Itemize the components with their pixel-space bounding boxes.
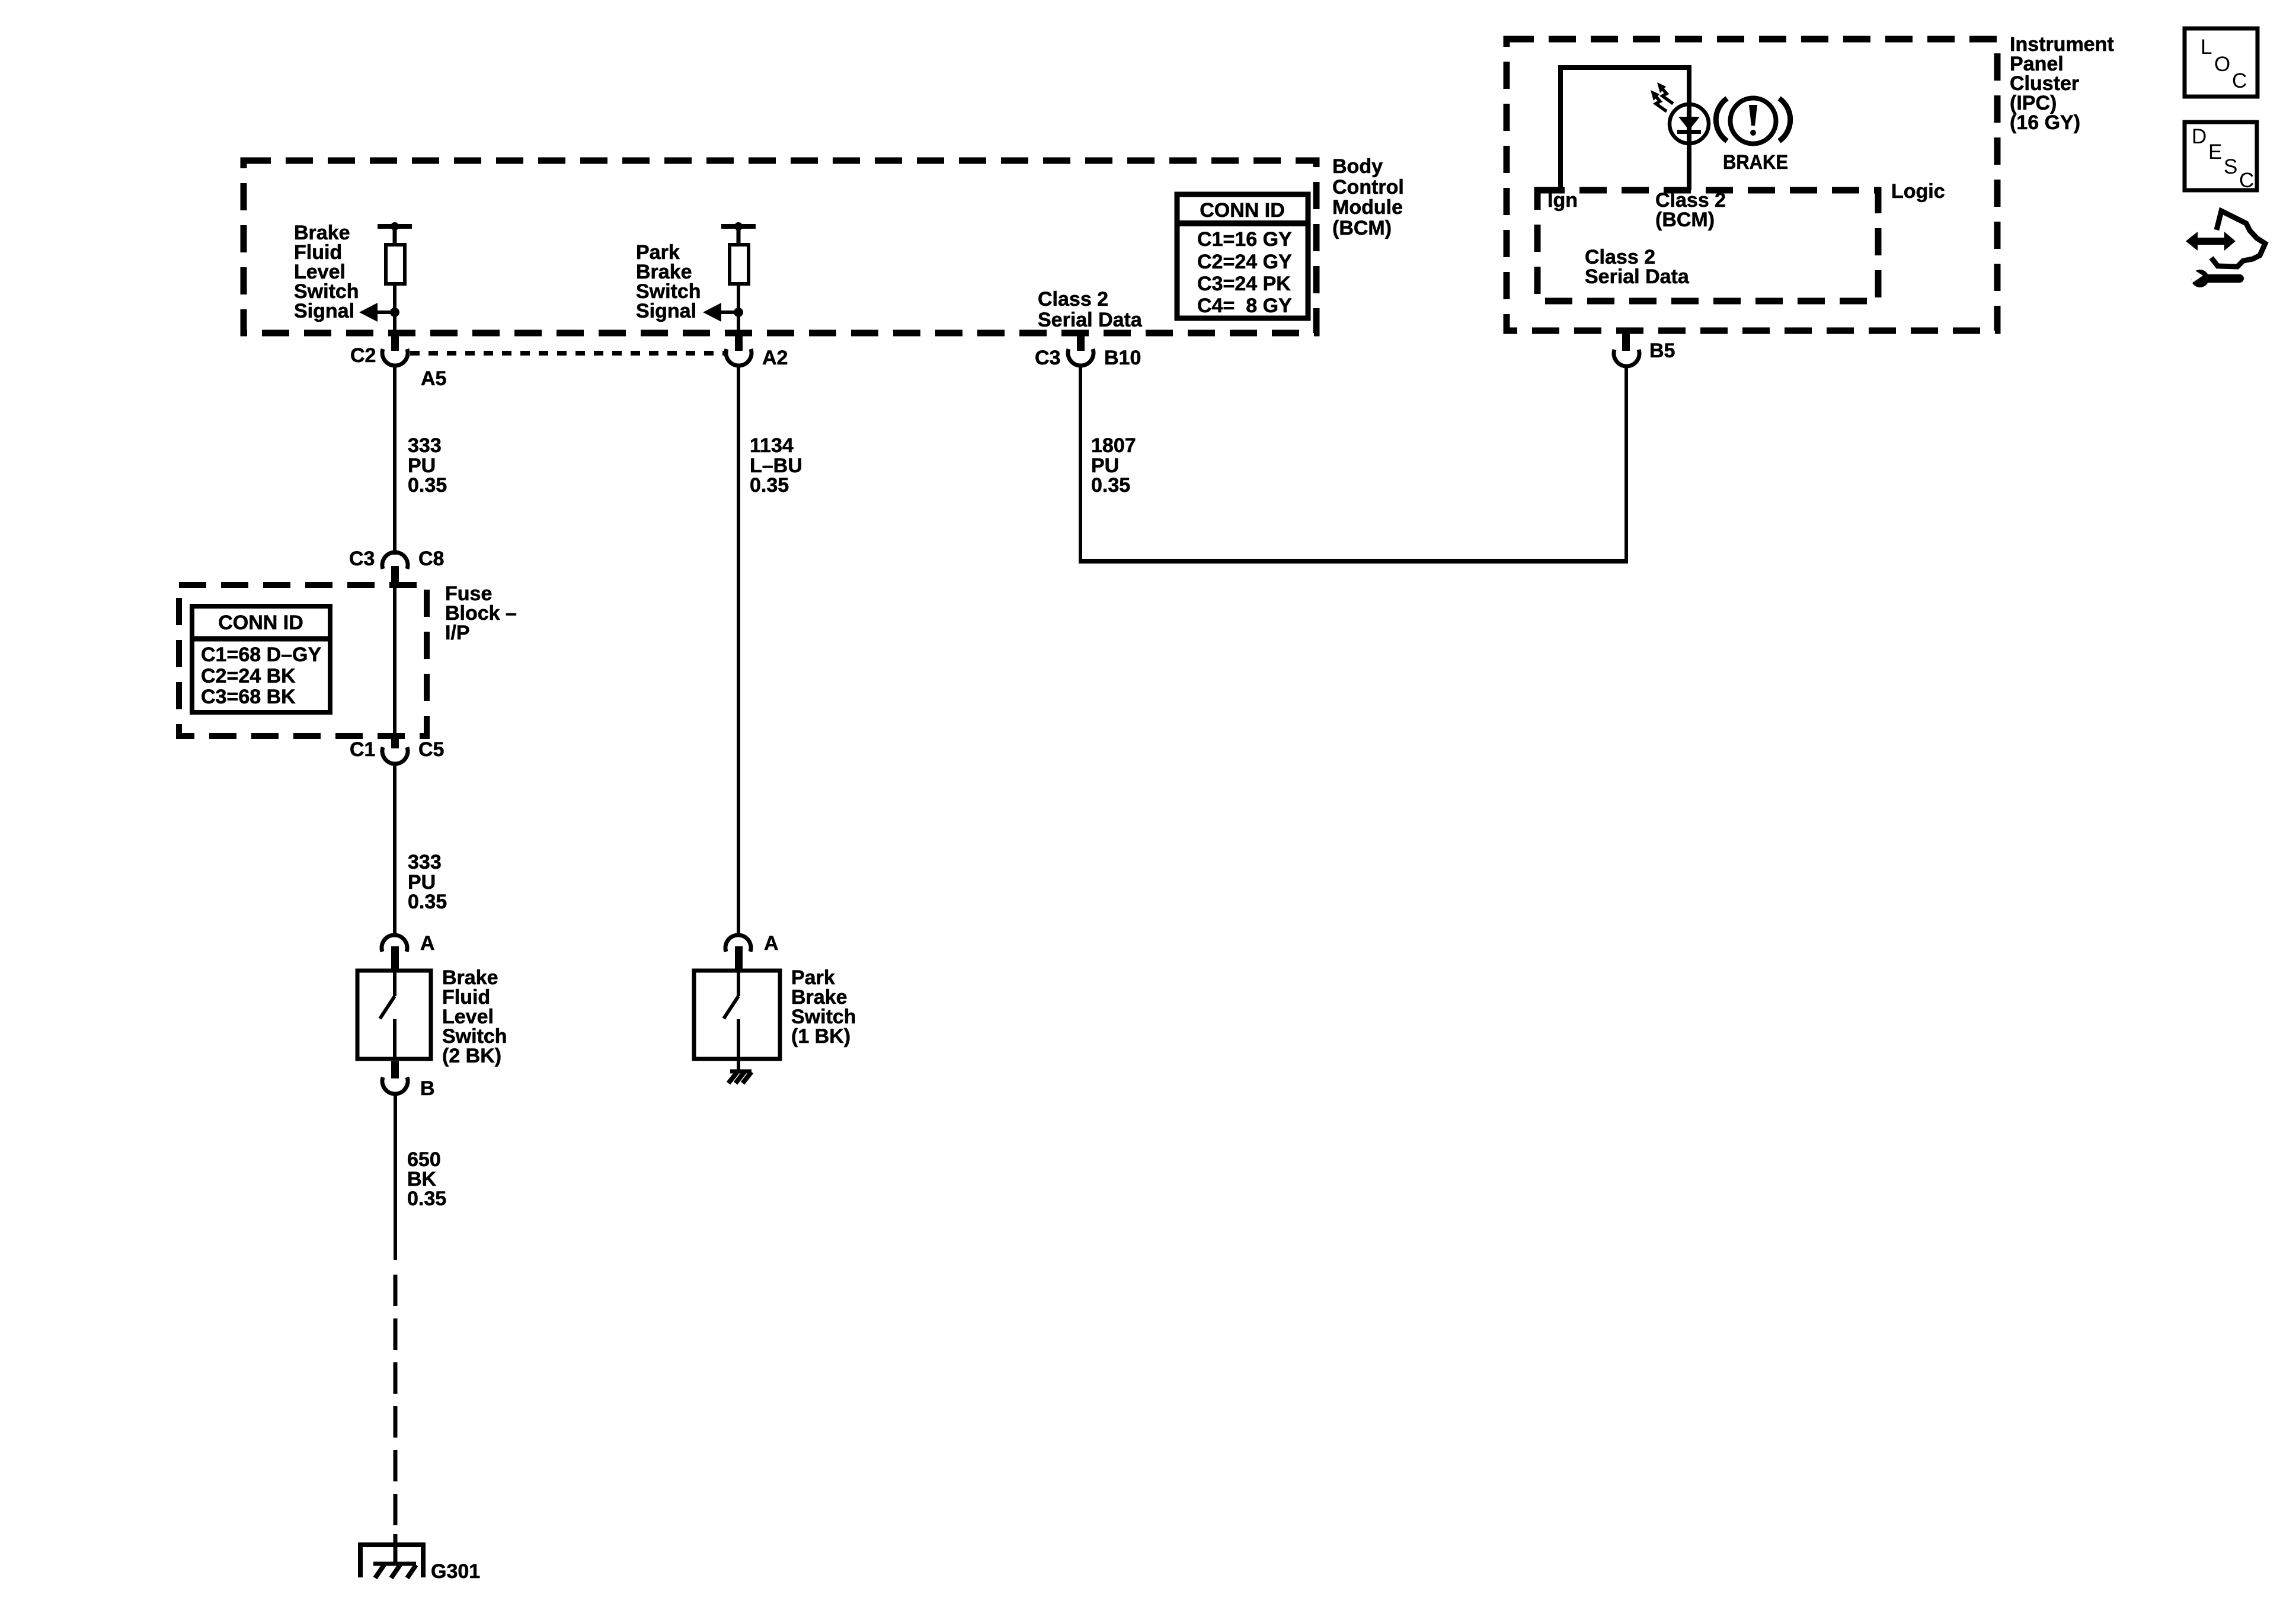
Fuse Block label <box>445 582 517 644</box>
wire W1 (fuse block to switch) <box>393 764 396 934</box>
chassis ground (park brake switch) <box>728 1071 752 1083</box>
signal arrow W1 <box>359 303 395 322</box>
wire label 333 PU 0.35 (lower) <box>408 851 447 913</box>
svg-text:C4= 8 GY: C4= 8 GY <box>1197 295 1292 317</box>
Park Brake Switch box <box>694 971 780 1059</box>
wire W2 (A2 to switch) <box>737 366 740 934</box>
svg-text:A: A <box>764 932 779 955</box>
Fuse Block dashed box <box>179 585 427 736</box>
wire W3 horizontal run <box>1079 559 1628 564</box>
svg-text:Class 2: Class 2 <box>1038 288 1108 311</box>
BCM dashed box <box>244 161 1316 333</box>
wire W3 vertical (up to B5) <box>1625 367 1628 564</box>
pin A2 <box>735 331 743 351</box>
svg-text:C8: C8 <box>418 548 444 570</box>
svg-text:C3=68 BK: C3=68 BK <box>201 686 296 708</box>
svg-text:Logic: Logic <box>1891 180 1945 203</box>
connector B <box>382 1077 408 1094</box>
svg-text:B10: B10 <box>1104 347 1141 369</box>
label Park Brake Switch Signal <box>636 241 701 322</box>
svg-text:G301: G301 <box>431 1560 480 1583</box>
wire inside fuse block <box>393 587 396 736</box>
label Class 2 Serial Data (BCM) <box>1038 288 1143 331</box>
pin B5 <box>1622 332 1630 351</box>
svg-text:C: C <box>2239 169 2254 192</box>
svg-text:C5: C5 <box>418 738 444 761</box>
svg-text:A: A <box>420 932 435 955</box>
svg-text:Signal: Signal <box>636 300 696 322</box>
connector A (brake fluid level switch) <box>382 935 407 952</box>
svg-text:B5: B5 <box>1649 340 1675 362</box>
svg-text:S: S <box>2224 155 2237 178</box>
svg-text:Body: Body <box>1332 155 1383 178</box>
svg-text:C2=24 GY: C2=24 GY <box>1197 251 1292 273</box>
svg-text:Serial Data: Serial Data <box>1585 265 1690 288</box>
connector A (park brake switch) <box>725 935 751 952</box>
LOC box <box>2185 28 2257 97</box>
wire W1 (C2 to fuse block) <box>393 366 396 555</box>
resistor R2 (park brake switch pull-up) <box>721 222 756 284</box>
svg-text:333: 333 <box>408 434 442 457</box>
svg-text:A2: A2 <box>762 347 788 369</box>
svg-text:L: L <box>2201 36 2212 59</box>
svg-text:Serial Data: Serial Data <box>1038 309 1143 331</box>
pin A <box>735 946 743 971</box>
svg-text:C3=24 PK: C3=24 PK <box>1197 273 1291 295</box>
BCM name label <box>1332 155 1404 239</box>
svg-text:C1=68 D–GY: C1=68 D–GY <box>201 644 321 666</box>
IPC dashed box <box>1507 39 1997 331</box>
BCM CONN ID table <box>1177 194 1308 318</box>
svg-text:D: D <box>2192 125 2207 148</box>
svg-text:Ign: Ign <box>1547 189 1578 212</box>
svg-text:C: C <box>2232 69 2247 92</box>
Class 2 Serial Data label (logic) <box>1585 246 1690 288</box>
Class 2 (BCM) label <box>1655 189 1726 231</box>
svg-text:C3: C3 <box>1035 347 1060 369</box>
svg-text:1807: 1807 <box>1091 434 1136 457</box>
svg-text:Module: Module <box>1332 196 1403 219</box>
connector face dotted line C2-A2 <box>410 351 725 356</box>
label Brake Fluid Level Switch Signal <box>294 222 359 322</box>
ground G301 <box>358 1542 426 1578</box>
pin B10 <box>1077 331 1085 351</box>
node junction W2 signal <box>734 308 743 317</box>
navigation icon: double arrow <box>2186 232 2236 251</box>
svg-text:O: O <box>2214 53 2230 76</box>
switch S1 blade <box>380 972 395 1057</box>
pin C8 <box>391 566 399 587</box>
pin B <box>391 1061 399 1078</box>
svg-text:CONN ID: CONN ID <box>1200 199 1285 222</box>
DESC box <box>2185 122 2257 192</box>
signal arrow W2 <box>703 303 738 322</box>
resistor R1 (brake fluid level switch pull-up) <box>378 222 412 284</box>
Fuse CONN ID table <box>192 606 330 712</box>
svg-text:BRAKE: BRAKE <box>1723 151 1788 174</box>
svg-text:0.35: 0.35 <box>1091 474 1130 497</box>
node junction W1 signal <box>390 308 399 317</box>
switch name label <box>791 966 856 1048</box>
svg-text:C2=24 BK: C2=24 BK <box>201 665 296 687</box>
wire label 650 BK 0.35 <box>407 1148 446 1210</box>
svg-text:(BCM): (BCM) <box>1655 209 1715 231</box>
connector C3/C8 <box>382 552 408 569</box>
svg-text:(16 GY): (16 GY) <box>2010 111 2080 134</box>
svg-text:0.35: 0.35 <box>408 474 447 497</box>
connector C1/C5 <box>382 747 408 764</box>
svg-text:C1=16 GY: C1=16 GY <box>1197 228 1292 251</box>
svg-text:Control: Control <box>1332 176 1404 199</box>
svg-text:E: E <box>2208 140 2222 164</box>
svg-text:0.35: 0.35 <box>408 891 447 913</box>
svg-text:(1 BK): (1 BK) <box>791 1025 850 1048</box>
pin A <box>391 946 399 971</box>
svg-text:C2: C2 <box>350 344 376 367</box>
svg-text:B: B <box>420 1077 435 1100</box>
BRAKE telltale symbol <box>1716 98 1790 144</box>
IPC name label <box>2010 33 2114 134</box>
svg-text:0.35: 0.35 <box>750 474 789 497</box>
wire to chassis ground <box>737 1059 740 1071</box>
LED emission arrows <box>1651 82 1673 111</box>
wire stub to ground <box>394 1534 398 1564</box>
svg-text:CONN ID: CONN ID <box>218 612 303 634</box>
wire (R1 to junction) <box>393 284 396 332</box>
connector C2/A5 <box>382 349 408 366</box>
wire label 333 PU 0.35 <box>408 434 447 497</box>
wire label 1807 PU 0.35 <box>1091 434 1136 497</box>
svg-text:0.35: 0.35 <box>407 1188 446 1210</box>
svg-text:(2 BK): (2 BK) <box>442 1045 501 1067</box>
connector A2 <box>726 349 752 366</box>
navigation icon: outline pointer <box>2211 211 2265 267</box>
svg-text:1134: 1134 <box>750 434 794 457</box>
svg-text:(BCM): (BCM) <box>1332 217 1392 239</box>
wire (R2 to junction) <box>737 284 740 332</box>
switch S2 blade <box>724 972 738 1061</box>
pin C2 <box>391 331 399 351</box>
wire label 1134 L-BU 0.35 <box>750 434 802 497</box>
svg-text:C3: C3 <box>349 548 375 570</box>
connector B5 <box>1614 350 1639 366</box>
svg-text:C1: C1 <box>350 738 375 761</box>
svg-text:Signal: Signal <box>294 300 354 322</box>
wire 650 (dashed) <box>394 1275 398 1536</box>
lamp feed wire loop <box>1560 68 1689 190</box>
connector C3/B10 <box>1068 349 1093 366</box>
wire 650 (solid) <box>394 1094 397 1260</box>
wire W3 vertical (B10 down) <box>1079 366 1082 564</box>
LED indicator lamp <box>1670 104 1709 143</box>
svg-text:I/P: I/P <box>445 622 470 644</box>
svg-text:A5: A5 <box>421 367 446 390</box>
Logic dashed box <box>1537 190 1878 301</box>
Brake Fluid Level Switch box <box>357 971 431 1059</box>
svg-text:333: 333 <box>408 851 442 873</box>
pin C1/C5 <box>391 736 399 748</box>
navigation icon: wrench <box>2190 267 2240 287</box>
switch name label <box>442 966 507 1067</box>
